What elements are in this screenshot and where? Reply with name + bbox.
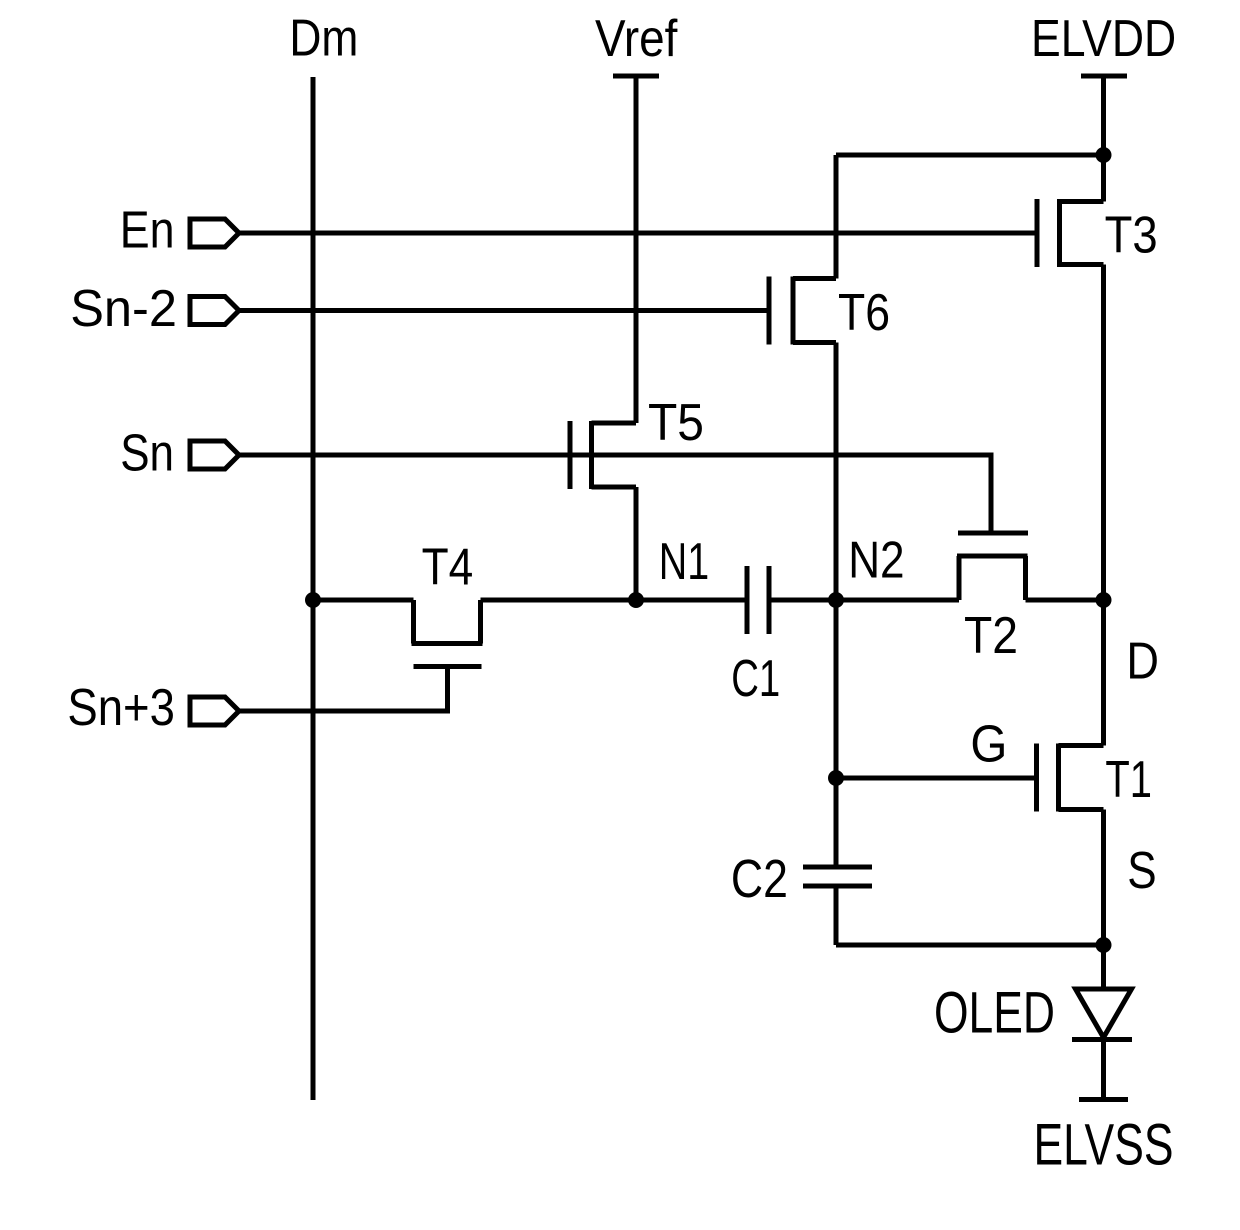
wire OLED to ELVSS [1101, 1040, 1106, 1099]
svg-text:OLED: OLED [934, 981, 1055, 1046]
wire Sn+3 line to T4 gate [238, 669, 448, 712]
transistor T2 [957, 533, 1028, 600]
wire En line [238, 231, 1035, 236]
junction Dm-T4 [305, 592, 321, 608]
node Vref terminal bar [613, 74, 659, 79]
wire Sn-2 line [238, 308, 767, 313]
transistor T6 [769, 155, 836, 345]
svg-text:N2: N2 [848, 532, 904, 590]
capacitor C1 [747, 566, 769, 634]
svg-text:Sn-2: Sn-2 [70, 280, 177, 338]
node G junction [828, 770, 844, 786]
svg-text:T4: T4 [422, 538, 474, 596]
svg-text:G: G [970, 715, 1007, 773]
svg-text:S: S [1127, 842, 1156, 900]
wire top link from T6 drain to ELVDD junction [836, 153, 1104, 158]
wire bottom link to S node [836, 943, 1104, 948]
input flag Sn [190, 441, 239, 469]
wire T6 source to N2 [834, 343, 839, 601]
wire Dm node to T4 [313, 598, 414, 603]
diode OLED [1076, 989, 1132, 1038]
transistor T5 [570, 421, 636, 489]
node S junction [1096, 937, 1112, 953]
node ELVDD terminal bar [1081, 74, 1127, 79]
svg-text:Sn+3: Sn+3 [67, 679, 174, 737]
input flag Sn+3 [190, 697, 239, 725]
input flag En [190, 219, 239, 247]
wire T2 to D node [1026, 598, 1104, 603]
wire Vref rail lower to N1 [634, 487, 639, 600]
svg-text:D: D [1126, 633, 1159, 691]
transistor T3 [1037, 155, 1104, 267]
transistor T4 [412, 600, 483, 667]
svg-text:T2: T2 [964, 607, 1018, 665]
wire Sn line to T2 gate [238, 455, 991, 531]
node N1 junction [628, 592, 644, 608]
wire S node to OLED anode [1101, 945, 1106, 989]
diode OLED cathode bar [1072, 1037, 1132, 1042]
svg-text:T3: T3 [1105, 207, 1158, 265]
junction ELVDD-T6 [1096, 147, 1112, 163]
node ELVSS terminal bar [1079, 1097, 1128, 1102]
wire ELVDD drop to junction [1101, 76, 1106, 202]
svg-text:En: En [120, 202, 175, 260]
wire T4 to N1 [481, 598, 748, 603]
svg-text:C2: C2 [731, 849, 788, 909]
wire T1 source to S node [1101, 810, 1106, 946]
node D junction [1096, 592, 1112, 608]
wire T3 source down to D and T1 drain [1101, 265, 1106, 746]
capacitor C2 [803, 867, 872, 886]
svg-text:T1: T1 [1105, 751, 1152, 809]
wire C1 to N2 [769, 598, 959, 603]
wire G node down to C2 [834, 778, 839, 867]
node Dm (data line rail) [311, 77, 316, 1100]
transistor T1 [1037, 744, 1104, 812]
wire C2 to bottom link [834, 886, 839, 945]
svg-text:ELVDD: ELVDD [1031, 10, 1176, 68]
wire Vref rail upper [634, 76, 639, 423]
node N2 junction [828, 592, 844, 608]
svg-text:T6: T6 [838, 284, 890, 342]
svg-text:Sn: Sn [120, 424, 174, 482]
input flag Sn-2 [190, 297, 239, 325]
svg-text:C1: C1 [731, 650, 780, 708]
wire G line to T1 gate [836, 776, 1035, 781]
svg-text:N1: N1 [659, 533, 709, 591]
svg-text:ELVSS: ELVSS [1034, 1112, 1174, 1177]
svg-text:T5: T5 [648, 394, 704, 452]
svg-text:Vref: Vref [595, 10, 678, 68]
wire N2 down to G node [834, 600, 839, 778]
svg-text:Dm: Dm [289, 10, 358, 68]
